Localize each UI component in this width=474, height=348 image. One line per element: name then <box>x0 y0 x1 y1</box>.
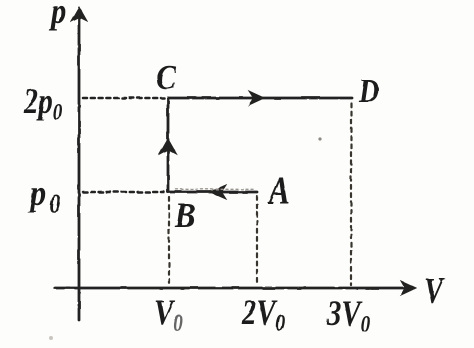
svg-text:C: C <box>156 59 176 98</box>
x-axis V <box>55 281 416 295</box>
dashed guide from y-axis to C at 2p0 level <box>83 97 164 100</box>
process line B to C with up arrow <box>160 98 177 192</box>
svg-text:D: D <box>358 71 379 109</box>
node label C <box>156 59 176 98</box>
svg-text:2p0: 2p0 <box>23 82 62 125</box>
axis label V <box>424 271 446 312</box>
y-axis p <box>71 7 87 320</box>
axis label p <box>48 0 66 32</box>
svg-text:p0: p0 <box>27 173 61 218</box>
svg-text:V: V <box>424 271 446 312</box>
tick label 2p0 <box>23 82 62 125</box>
svg-text:2V0: 2V0 <box>241 293 285 336</box>
svg-text:V0: V0 <box>154 293 183 336</box>
scan speck near D column <box>318 137 321 140</box>
svg-text:A: A <box>267 169 290 212</box>
dashed guide from B down to V0 <box>168 197 170 285</box>
node label D <box>358 71 379 109</box>
tick label 2V0 <box>241 293 285 336</box>
svg-text:B: B <box>174 196 195 236</box>
dashed guide from A down to 2V0 <box>256 196 258 285</box>
process line C to D <box>168 91 352 105</box>
tick label p0 <box>27 173 61 218</box>
node label B <box>174 196 195 236</box>
node label A <box>267 169 290 212</box>
faint dotted overdraw from B to A <box>176 188 254 190</box>
svg-text:3V0: 3V0 <box>326 294 370 337</box>
process line A to B with left arrow <box>168 185 257 199</box>
dashed guide from y-axis to B at p0 level <box>83 191 164 194</box>
dashed guide from D down to 3V0 <box>350 103 352 285</box>
tick label 3V0 <box>326 294 370 337</box>
scan speck bottom-left <box>49 336 53 340</box>
svg-text:p: p <box>48 0 66 32</box>
tick label V0 <box>154 293 183 336</box>
